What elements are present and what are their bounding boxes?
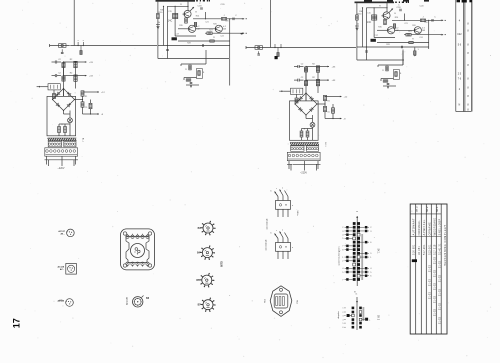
svg-text:aansluitzijde: aansluitzijde [265,239,268,251]
svg-text:C21: C21 [205,22,208,24]
svg-text:3: 3 [342,231,343,233]
svg-text:51-52: 51-52 [435,256,437,264]
svg-text:1k: 1k [158,22,160,24]
svg-text:AFWIKKEL: AFWIKKEL [423,219,426,235]
svg-text:C24: C24 [419,37,422,39]
svg-text:51-52: 51-52 [429,291,431,299]
svg-text:SK 1: SK 1 [376,249,378,255]
svg-text:4: 4 [342,268,343,270]
svg-text:516 981: 516 981 [414,244,416,255]
svg-text:9: 9 [370,253,371,255]
svg-text:HERKENNING KOMPLEET: HERKENNING KOMPLEET [444,225,447,266]
svg-text:OPNAME: OPNAME [428,222,431,236]
svg-text:R27: R27 [209,30,212,32]
svg-text:R24: R24 [196,16,199,18]
svg-text:1: 1 [369,320,370,322]
svg-text:AC..: AC.. [60,268,65,271]
svg-text:NORMAAL: NORMAAL [418,220,421,236]
svg-text:51-52: 51-52 [429,278,431,286]
svg-text:51-52: 51-52 [429,264,431,272]
svg-text:AC128: AC128 [58,266,65,269]
svg-text:5: 5 [342,272,343,274]
svg-text:SK 3: SK 3 [414,206,418,212]
svg-text:1: 1 [342,257,343,259]
svg-text:~220V: ~220V [300,172,307,175]
svg-text:2N...: 2N... [61,234,66,236]
svg-text:afspelen: afspelen [338,311,340,319]
svg-text:R35: R35 [179,25,182,27]
svg-text:J: J [423,16,424,18]
svg-text:AC127: AC127 [58,230,65,233]
svg-text:51-52: 51-52 [440,274,442,282]
svg-text:17: 17 [12,318,22,328]
svg-text:4: 4 [342,234,343,236]
svg-text:Ansicht: Ansicht [125,297,128,305]
svg-text:SK 2: SK 2 [425,206,429,212]
svg-text:512-201: 512-201 [429,244,431,255]
svg-text:m: m [356,211,358,213]
svg-text:C15: C15 [367,13,370,15]
svg-text:R26: R26 [412,25,415,27]
svg-text:OC..: OC.. [59,300,64,302]
svg-text:R27: R27 [408,31,411,33]
svg-text:AUTOMAAT: AUTOMAAT [413,218,416,235]
svg-text:2: 2 [342,227,343,229]
svg-text:J: J [224,15,225,17]
svg-text:517-201: 517-201 [424,244,426,255]
svg-text:4: 4 [343,319,344,321]
svg-text:517 318: 517 318 [435,244,437,255]
svg-text:c: c [276,230,277,232]
svg-text:c: c [276,188,277,190]
svg-text:5: 5 [343,323,344,325]
svg-text:aansluitzijde: aansluitzijde [266,218,269,230]
svg-text:1k: 1k [357,24,359,26]
svg-text:SK 1: SK 1 [435,206,439,212]
svg-text:N: N [459,104,461,107]
svg-text:C22: C22 [457,33,462,36]
svg-text:R26: R26 [213,24,216,26]
svg-text:5: 5 [342,238,343,240]
svg-text:2: 2 [343,312,344,314]
svg-text:R30: R30 [359,11,362,13]
svg-text:4: 4 [370,268,371,270]
svg-text:o: o [78,40,79,42]
svg-text:SK 2: SK 2 [376,315,378,321]
svg-text:EL95: EL95 [219,261,221,267]
svg-text:6: 6 [370,242,371,244]
svg-text:C21: C21 [404,23,407,25]
svg-text:51-41 31: 51-41 31 [440,243,442,255]
svg-text:R35: R35 [378,27,381,29]
svg-text:51-52: 51-52 [435,308,437,316]
svg-text:51-52: 51-52 [440,260,442,268]
svg-text:3: 3 [370,231,371,233]
svg-text:R28: R28 [187,43,190,45]
svg-text:1: 1 [343,308,344,310]
svg-text:R24: R24 [395,17,398,19]
svg-text:14C: 14C [168,20,173,23]
svg-text:3: 3 [343,315,344,317]
svg-text:51-52: 51-52 [435,282,437,290]
svg-text:o: o [83,40,84,42]
svg-text:R30: R30 [160,10,163,12]
svg-text:51-52: 51-52 [440,316,442,324]
svg-text:7: 7 [342,279,343,281]
svg-text:7: 7 [342,246,343,248]
svg-text:14C: 14C [367,21,372,24]
svg-text:SNELLOOP: SNELLOOP [439,218,442,235]
svg-text:51-52: 51-52 [440,288,442,296]
svg-text:C24: C24 [220,36,223,38]
svg-text:m: m [355,294,357,296]
svg-text:90 981: 90 981 [419,246,421,255]
svg-text:51-52: 51-52 [440,302,442,310]
svg-text:C15: C15 [168,11,171,13]
svg-text:470: 470 [424,22,427,24]
svg-text:470: 470 [225,21,228,23]
svg-text:opnemen weergeven: opnemen weergeven [338,247,340,266]
svg-text:51-52: 51-52 [435,295,437,303]
svg-text:~220V: ~220V [58,167,65,170]
svg-text:6: 6 [370,276,371,278]
svg-text:8: 8 [342,249,343,251]
svg-text:51-52: 51-52 [435,269,437,277]
svg-text:2: 2 [370,227,371,229]
svg-text:5: 5 [370,272,371,274]
svg-text:R28: R28 [386,44,389,46]
svg-text:1: 1 [370,257,371,259]
svg-text:2: 2 [342,261,343,263]
svg-text:6: 6 [343,327,344,329]
svg-text:WEERGAVE: WEERGAVE [434,218,437,236]
